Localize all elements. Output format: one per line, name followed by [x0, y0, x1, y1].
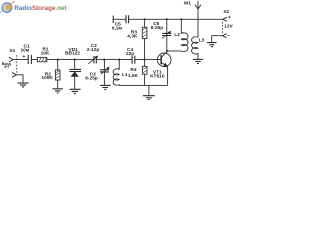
svg-text:RadioStorage.net: RadioStorage.net — [14, 5, 67, 12]
svg-text:1,5K: 1,5K — [128, 73, 139, 79]
svg-text:ЗЧ: ЗЧ — [4, 65, 9, 69]
svg-text:R4: R4 — [130, 67, 136, 73]
svg-text:100K: 100K — [41, 75, 53, 81]
svg-text:12V: 12V — [224, 23, 233, 29]
svg-text:2-12p: 2-12p — [87, 47, 100, 53]
svg-text:L3: L3 — [199, 37, 205, 43]
svg-text:W1: W1 — [184, 1, 192, 7]
svg-text:BB122: BB122 — [65, 51, 80, 57]
svg-text:X1: X1 — [9, 48, 15, 54]
svg-text:X2: X2 — [223, 9, 229, 15]
svg-text:10м: 10м — [20, 48, 29, 54]
svg-text:L2: L2 — [174, 32, 180, 38]
svg-text:4,3K: 4,3K — [127, 34, 138, 40]
svg-text:6-25p: 6-25p — [151, 25, 164, 31]
svg-text:KT610: KT610 — [150, 74, 165, 80]
svg-text:0,1м: 0,1м — [112, 26, 123, 32]
svg-text:22p: 22p — [126, 51, 134, 57]
svg-text:6-25p: 6-25p — [85, 76, 98, 82]
svg-text:10K: 10K — [41, 51, 50, 57]
